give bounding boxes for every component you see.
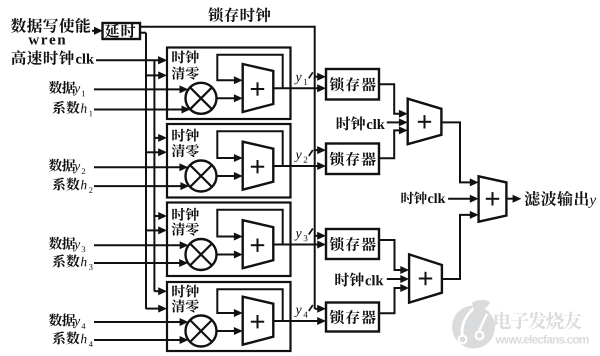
label: y1'	[294, 72, 312, 85]
wire: clk input arrow into MAC4	[154, 287, 167, 295]
wire: coefficient h4 input line	[94, 336, 188, 344]
label: 时钟 (clock) in MAC3	[172, 208, 199, 221]
wire: adder A2 feedback loop	[217, 131, 282, 166]
latch L2 锁存器	[326, 144, 379, 175]
wire: multiplier M2 output to adder A2	[217, 172, 243, 180]
wire: S2 output to final adder S3	[442, 211, 479, 279]
watermark: www.elecfans.com	[495, 335, 588, 344]
wire: multiplier M4 output to adder A4	[217, 327, 243, 335]
label: 时钟 (clock) in MAC2	[172, 129, 199, 142]
watermark: 电子发烧友 text	[495, 312, 582, 330]
label: latch-clock 锁存时钟	[208, 7, 270, 22]
MAC block 4 outer box	[167, 282, 291, 351]
multiplier M1 (circle with X)	[186, 83, 217, 114]
label: high-speed clock 高速时钟clk	[11, 50, 94, 65]
wire: latch L3 output to adder S2	[379, 240, 409, 274]
wire: latch L4 output to adder S2	[379, 284, 409, 313]
wire: clear net from delay down left bus	[140, 33, 146, 309]
adder A4 (trapezoid with +)	[243, 297, 274, 345]
wire: latch L1 output to adder S1	[379, 84, 408, 117]
wire: coefficient h1 input line	[94, 106, 190, 114]
wire: latch clock tee into L4	[315, 305, 326, 313]
wire: multiplier M3 output to adder A3	[217, 251, 243, 259]
wire: MAC1 output y1' to latch L1	[273, 84, 326, 92]
latch L1 锁存器	[326, 69, 379, 100]
wire: clk arrow into S2	[387, 275, 409, 283]
adder S1 (stage-2 upper trapezoid with +)	[408, 99, 442, 145]
adder S2 (stage-2 lower trapezoid with +)	[409, 254, 442, 302]
wire: MAC3 output y3' to latch L3	[273, 241, 326, 249]
wire: clk arrow into S3	[448, 195, 479, 203]
label: 系数h2	[52, 178, 92, 193]
label: 时钟clk for S3	[401, 192, 445, 205]
wire: latch clock tee into L2	[315, 146, 326, 154]
wire: latch clock tee into L1	[315, 73, 326, 81]
latch L4 锁存器	[326, 303, 379, 332]
label: wren	[28, 37, 65, 44]
multiplier M2 (circle with X)	[186, 161, 217, 192]
MAC block 3 outer box	[167, 203, 291, 277]
label: filter output 滤波输出y	[525, 191, 597, 208]
wire: clear input arrow into MAC2	[146, 148, 167, 156]
wire: wren to delay block	[92, 27, 103, 35]
MAC block 2 outer box	[167, 124, 291, 198]
wire: clear input arrow into MAC1	[146, 71, 167, 79]
label: 清零 (clear) in MAC2	[172, 144, 199, 157]
wire: adder A1 feedback loop	[217, 55, 282, 89]
label: y2'	[294, 150, 312, 163]
wire: clk line into MAC1	[96, 56, 167, 64]
watermark: elecfans logo circle	[452, 300, 495, 349]
label: 清零 (clear) in MAC3	[172, 223, 199, 236]
latch L3 锁存器	[326, 229, 379, 259]
adder A1 (trapezoid with +)	[243, 64, 274, 112]
adder A3 (trapezoid with +)	[243, 220, 274, 268]
wire: clk arrow into S1	[387, 118, 408, 126]
label: 时钟 (clock) in MAC1	[172, 50, 199, 63]
wire: clear input arrow into MAC4	[146, 305, 167, 313]
wire: MAC2 output y2' to latch L2	[273, 162, 326, 170]
label: 清零 (clear) in MAC4	[172, 299, 199, 312]
wire: clear input arrow into MAC3	[146, 226, 167, 234]
wire: adder A4 feedback loop	[217, 289, 282, 321]
wire: data y1 input line	[94, 85, 188, 93]
final adder S3 (trapezoid with +)	[479, 176, 507, 221]
wire: clk vertical bus	[153, 60, 155, 291]
wire: latch L2 output to adder S1	[379, 126, 408, 158]
label: 时钟 (clock) in MAC4	[172, 285, 199, 298]
label: 系数h4	[52, 331, 92, 346]
label: 时钟clk for S2	[335, 272, 383, 286]
wire: data y2 input line	[94, 163, 188, 171]
wire: clk input arrow into MAC1	[158, 56, 167, 64]
wire: multiplier M1 output to adder A1	[217, 94, 243, 102]
wire: latch clock net (delay out to vertical bus feeding latches)	[140, 26, 315, 309]
wire: clk input arrow into MAC3	[154, 212, 167, 220]
label: 数据y4	[49, 313, 86, 328]
label: 数据y1	[49, 81, 85, 96]
wire: data y4 input line	[94, 318, 188, 326]
label: 系数h1	[52, 101, 92, 116]
label: y3'	[294, 229, 312, 242]
wire: coefficient h2 input line	[94, 182, 189, 190]
adder A2 (trapezoid with +)	[243, 142, 274, 190]
multiplier M4 (circle with X)	[186, 316, 217, 347]
MAC block 1 outer box	[167, 48, 291, 120]
wire: data y3 input line	[94, 241, 189, 249]
label: y4'	[294, 305, 312, 318]
wire: latch clock tee into L3	[315, 232, 326, 240]
label: 时钟clk for S1	[337, 116, 385, 130]
label: 清零 (clear) in MAC1	[172, 67, 199, 80]
wire: S1 output to final adder S3	[441, 122, 478, 186]
label: 数据y3	[49, 237, 85, 252]
delay block U0 延时	[103, 23, 141, 39]
label: data-write-enable 数据写使能	[11, 18, 90, 33]
wire: adder A3 feedback loop	[217, 210, 282, 245]
label: 系数h3	[52, 254, 92, 269]
wire: coefficient h3 input line	[94, 259, 188, 267]
wire: MAC4 output y4' to latch L4	[273, 317, 326, 325]
label: 数据y2	[49, 159, 85, 174]
multiplier M3 (circle with X)	[186, 239, 217, 270]
wire: clk input arrow into MAC2	[154, 134, 167, 142]
wire: filter output arrow	[506, 195, 521, 203]
